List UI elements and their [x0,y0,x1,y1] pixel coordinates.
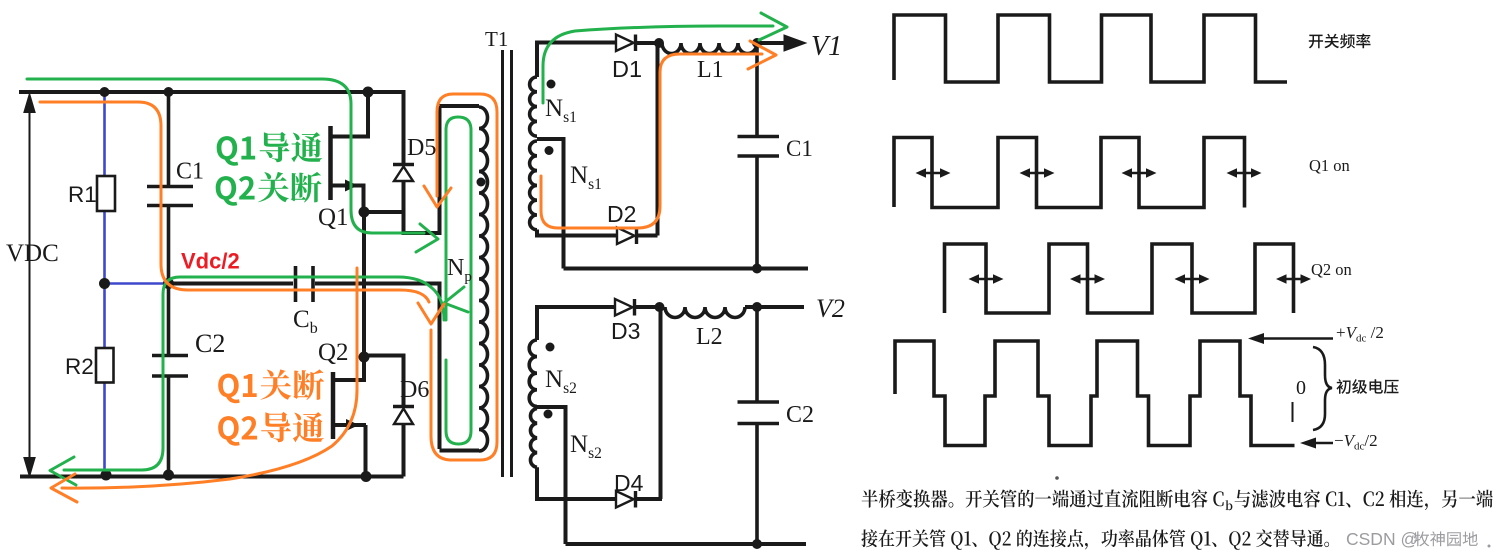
diode D4 [616,491,634,508]
transistor Q1 [328,126,333,200]
wire output2 return rail [566,542,807,546]
capacitor C1 (output) [755,43,759,269]
diode D3 [615,299,633,316]
wire V2 output [745,305,804,309]
wire output1 return rail [564,267,809,271]
green path Q1-on top feed [27,79,424,233]
text Q1daotong green annotation [217,132,323,166]
wire Ns2 top lead [537,307,615,340]
capacitor Cb [296,266,314,302]
orange path secondary Ns1 lower to V1 [541,54,762,228]
capacitor C2 (output) [755,307,759,544]
diode D5 [368,92,404,165]
label switching frequency [1309,34,1371,49]
svg-text:0: 0 [1296,377,1306,399]
waveform Q1 on [894,138,1245,208]
caption line 1 [862,489,1224,507]
svg-text:L1: L1 [697,57,724,83]
+Vdc/2 pointer arrow [1262,337,1333,340]
wire Ns2 bottom lead [537,467,616,499]
capacitor C1 (divider) [147,187,193,206]
svg-text:CSDN @: CSDN @ [1346,529,1418,549]
svg-text:Vdc/2: Vdc/2 [181,249,240,274]
svg-text:Q2: Q2 [318,339,349,366]
wire top rail [19,90,404,94]
resistor R1 [97,176,115,211]
svg-text:C2: C2 [786,402,814,428]
dead time arrows Q2 waveform [975,278,997,281]
winding Ns2 lower [530,409,537,468]
svg-text:V2: V2 [816,294,845,323]
diode D1 [616,35,634,52]
svg-text:C1: C1 [176,159,204,185]
wire primary bottom cap [440,449,480,453]
caption line 2 [861,529,1329,550]
wire Ns2 center tap [537,407,566,544]
brace primary voltage [1313,347,1332,430]
svg-text:R2: R2 [65,354,94,379]
svg-text:D6: D6 [400,377,429,403]
svg-text:T1: T1 [485,27,508,51]
diode D6 [364,356,404,407]
transformer primary winding Np [479,107,488,451]
VDC measure line with arrows [25,95,35,475]
orange loop around primary [431,94,497,460]
waveform switching frequency [894,15,1287,82]
text Q2guanduan green annotation [216,172,322,206]
waveform primary voltage [895,341,1295,446]
wire Ns1 center tap [537,139,564,269]
svg-text:C1: C1 [786,136,813,161]
svg-text:D2: D2 [607,201,636,227]
wire junction vertical Q1 source to Q2 drain [362,212,366,357]
svg-text:VDC: VDC [6,240,59,267]
svg-text:Q2 on: Q2 on [1311,260,1352,279]
inductor L2 [665,307,745,318]
wire Ns1 bottom lead [537,230,617,236]
svg-text:D4: D4 [614,470,644,496]
label primary voltage [1337,379,1399,394]
wire bottom rail [20,475,404,479]
wire C2 column lower [167,284,171,356]
svg-text:V1: V1 [811,31,842,62]
wire Ns1 top lead [537,43,616,78]
green loop around primary [446,117,471,444]
wire primary top cap [440,104,480,108]
winding Ns2 upper [529,340,537,406]
resistor R2 [96,348,114,383]
transformer core [503,50,512,477]
text Q2daotong orange annotation [218,412,324,446]
inductor L1 [662,43,757,54]
wire D4 cathode column [659,307,663,499]
wire C1 column upper [167,92,171,186]
orange path through Q2 to bottom return [62,268,357,488]
capacitor C2 (divider) [152,356,188,377]
svg-text:R1: R1 [68,182,97,207]
dead time arrows Q1 waveform [922,172,944,175]
svg-text:C2: C2 [195,329,225,358]
text Q1guanduan orange annotation [218,369,324,403]
-Vdc/2 pointer arrow [1313,442,1333,445]
svg-text:D3: D3 [611,318,640,344]
svg-text:Q1 on: Q1 on [1309,156,1350,175]
V1 output arrow [784,35,806,51]
wire Q1/Q2 junction to primary top [404,106,440,233]
winding Ns1 lower [530,141,537,230]
green path primary to mid rail and bottom return [64,277,444,470]
waveform Q2 on [945,244,1294,313]
wire mid rail (Vdc/2 node to Cb to primary) [169,282,294,286]
zero reference tick [1292,402,1294,422]
winding Ns1 upper [530,77,537,136]
svg-text:D1: D1 [612,56,642,82]
diode D2 [617,228,635,245]
svg-text:D5: D5 [407,135,436,161]
wire D2 cathode column [656,43,660,236]
orange path Q2-on mid-rail feed [40,102,429,302]
transistor Q2 [331,372,336,439]
transformer polarity dots [477,80,556,419]
blue voltage divider wire [105,92,169,476]
svg-text:Q1: Q1 [318,204,349,231]
wire V1 output [757,41,786,45]
green path secondary Ns1 to V1 [543,26,773,103]
svg-text:L2: L2 [696,324,723,350]
